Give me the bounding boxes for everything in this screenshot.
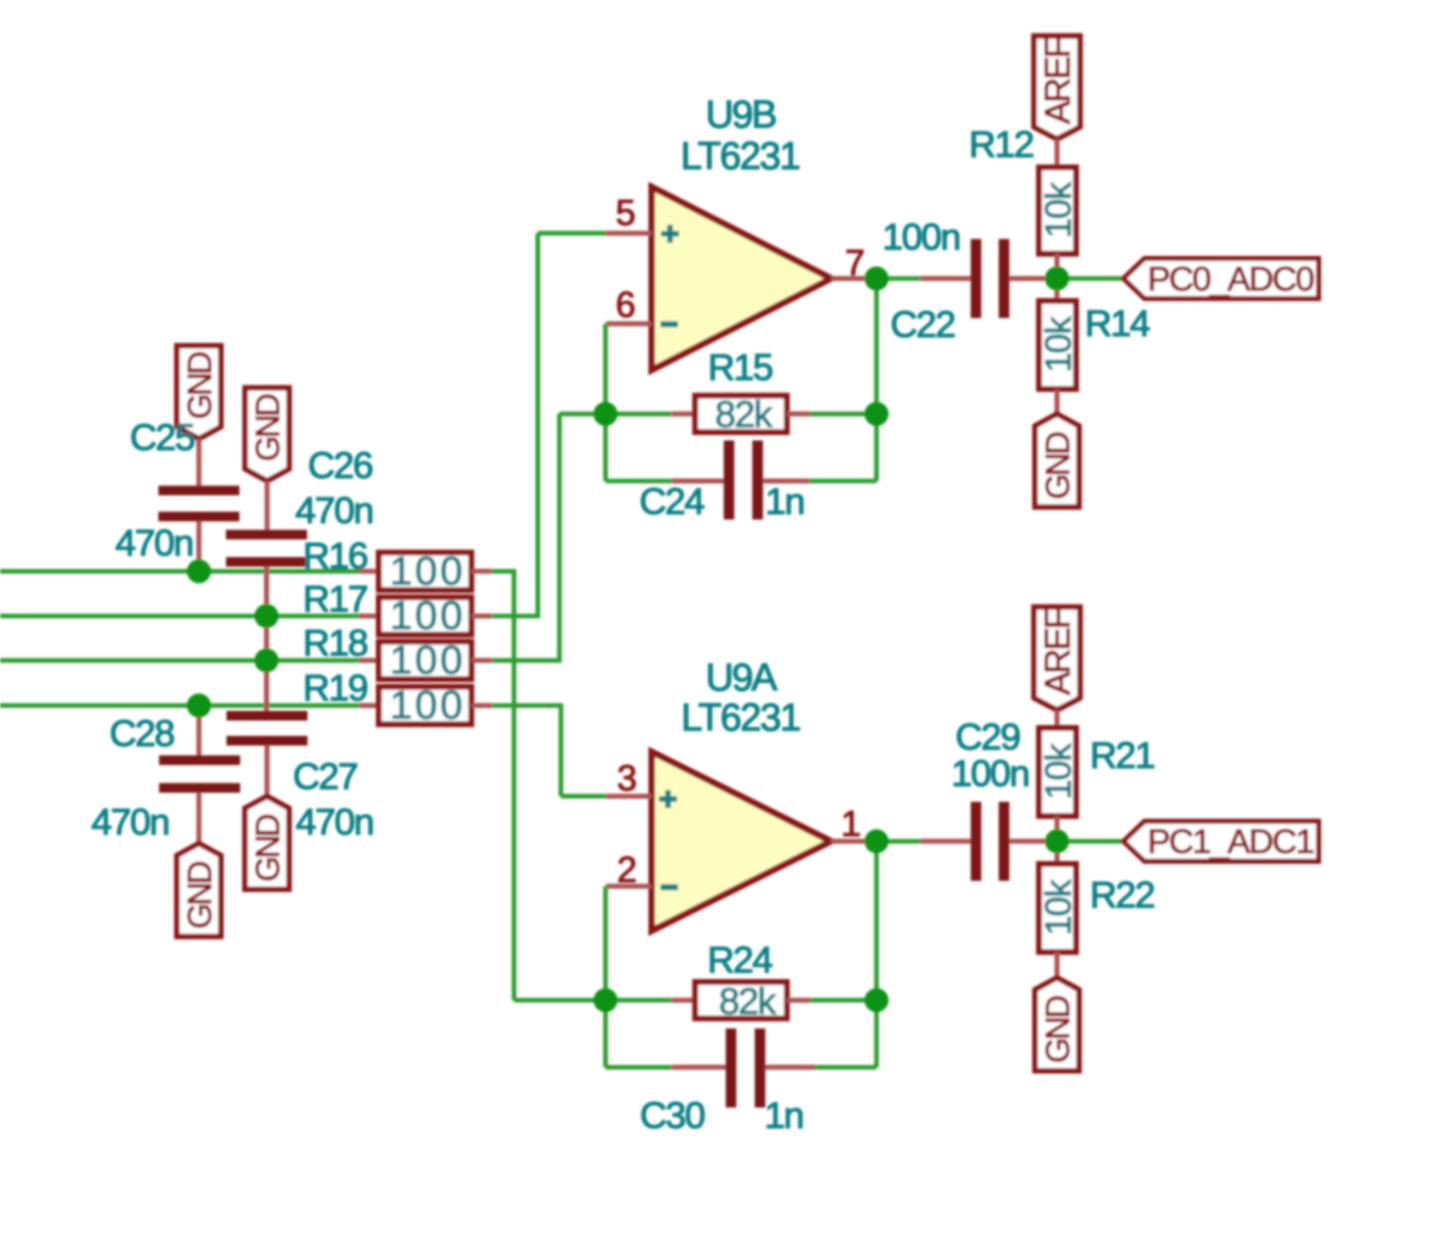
svg-text:100: 100 <box>390 638 466 682</box>
ground flag GND below C27 <box>245 796 289 889</box>
svg-text:LT6231: LT6231 <box>681 135 800 178</box>
capacitor C28 470n <box>159 706 240 844</box>
wire net IN1 horizontal <box>0 569 359 574</box>
svg-text:3: 3 <box>617 758 637 799</box>
resistor R18 100 <box>359 642 492 679</box>
wire to PC1_ADC1 <box>1057 839 1124 844</box>
svg-text:1: 1 <box>841 803 861 844</box>
svg-text:R21: R21 <box>1090 734 1155 776</box>
svg-text:R24: R24 <box>707 939 772 981</box>
svg-text:R18: R18 <box>303 622 368 664</box>
svg-text:R15: R15 <box>708 346 773 388</box>
resistor R12 10k <box>1039 139 1076 279</box>
capacitor C29 100n <box>921 802 1058 881</box>
resistor R17 100 <box>359 597 492 634</box>
wire to PC0_ADC0 <box>1057 276 1124 281</box>
resistor R16 100 <box>359 553 492 590</box>
wire net IN3 horizontal <box>0 658 359 663</box>
svg-text:GND: GND <box>249 394 286 462</box>
capacitor C27 470n <box>227 711 308 796</box>
svg-text:GND: GND <box>1039 996 1076 1064</box>
net label PC1_ADC1 <box>1124 821 1319 861</box>
ground flag GND below C28 <box>177 844 221 937</box>
junction U9B output <box>865 267 889 291</box>
svg-text:470n: 470n <box>295 489 372 531</box>
junction U9A feedback right <box>865 988 889 1012</box>
svg-text:82k: 82k <box>719 980 777 1022</box>
capacitor C24 1n <box>606 412 877 520</box>
svg-text:100: 100 <box>390 549 466 593</box>
resistor R19 100 <box>359 687 492 724</box>
svg-text:10k: 10k <box>1037 878 1078 935</box>
flag AREF top <box>1034 36 1080 139</box>
svg-text:7: 7 <box>845 242 865 283</box>
resistor R22 10k <box>1039 841 1076 977</box>
svg-text:LT6231: LT6231 <box>681 697 800 740</box>
svg-text:100: 100 <box>390 684 466 728</box>
junction PC0 node <box>1045 267 1069 291</box>
ground flag GND below R22 <box>1035 978 1079 1071</box>
svg-text:AREF: AREF <box>1039 38 1078 124</box>
flag AREF bottom <box>1034 607 1080 710</box>
wire U9A feedback right vertical <box>874 841 879 1067</box>
resistor R21 10k <box>1039 710 1076 841</box>
resistor R24 82k <box>606 982 877 1018</box>
svg-text:R16: R16 <box>303 534 368 576</box>
resistor R15 82k <box>606 396 877 432</box>
svg-text:100n: 100n <box>882 216 959 258</box>
svg-text:GND: GND <box>181 861 218 929</box>
resistor R14 10k <box>1039 279 1076 415</box>
capacitor C26 470n <box>226 481 307 711</box>
wire R19 to U9A pin3 <box>492 703 606 796</box>
junction U9B feedback left <box>594 402 618 426</box>
junction U9A output <box>865 829 889 853</box>
op-amp U9B LT6231 <box>606 187 877 370</box>
svg-text:C26: C26 <box>308 444 373 486</box>
svg-text:10k: 10k <box>1037 742 1078 799</box>
svg-text:10k: 10k <box>1037 181 1078 238</box>
svg-text:PC1_ADC1: PC1_ADC1 <box>1148 823 1314 861</box>
wire net IN4 horizontal <box>0 703 359 708</box>
svg-text:R22: R22 <box>1090 873 1154 915</box>
svg-text:5: 5 <box>616 192 636 233</box>
svg-text:C22: C22 <box>890 303 954 345</box>
junction IN4/C28 <box>187 694 211 718</box>
net label PC0_ADC0 <box>1124 259 1319 299</box>
junction PC1 node <box>1045 829 1069 853</box>
svg-text:470n: 470n <box>115 522 192 564</box>
svg-text:82k: 82k <box>715 393 773 435</box>
junction IN3 stem <box>255 648 279 672</box>
wire R16 to U9A inverting node <box>492 569 606 1000</box>
ground flag GND below R14 <box>1035 414 1079 507</box>
svg-text:C28: C28 <box>109 712 174 754</box>
svg-text:10k: 10k <box>1037 315 1078 372</box>
svg-text:C24: C24 <box>639 480 704 522</box>
capacitor C25 470n <box>158 439 239 572</box>
capacitor C22 100n <box>921 239 1058 318</box>
svg-text:6: 6 <box>616 284 636 325</box>
svg-text:GND: GND <box>249 814 286 882</box>
svg-text:U9B: U9B <box>706 94 776 137</box>
wire net IN2 horizontal <box>0 614 359 619</box>
svg-text:C30: C30 <box>640 1094 705 1136</box>
junction U9B feedback right <box>865 402 889 426</box>
svg-text:1n: 1n <box>764 1094 803 1136</box>
wire U9A pin2 to feedback node <box>603 886 608 1000</box>
svg-text:R19: R19 <box>303 667 368 709</box>
junction U9A feedback left <box>594 988 618 1012</box>
ground flag GND above C26 <box>245 388 289 481</box>
svg-text:2: 2 <box>617 849 637 890</box>
svg-text:AREF: AREF <box>1039 609 1078 695</box>
svg-text:U9A: U9A <box>706 657 778 700</box>
wire U9B output to C22 <box>877 276 923 281</box>
wire R18 to U9B feedback node <box>492 414 606 663</box>
op-amp U9A LT6231 <box>606 752 877 931</box>
svg-text:C25: C25 <box>130 416 195 458</box>
svg-text:C27: C27 <box>293 755 357 797</box>
wire U9B feedback right vertical <box>874 279 879 482</box>
svg-text:GND: GND <box>181 352 218 420</box>
capacitor C30 1n <box>606 998 877 1108</box>
svg-text:470n: 470n <box>91 800 168 842</box>
ground flag GND above C25 <box>177 346 221 439</box>
svg-text:1n: 1n <box>765 480 804 522</box>
svg-text:470n: 470n <box>296 800 373 842</box>
svg-text:100n: 100n <box>951 752 1028 794</box>
svg-text:R14: R14 <box>1085 302 1150 344</box>
svg-text:PC0_ADC0: PC0_ADC0 <box>1148 260 1314 298</box>
wire R17 to U9B pin5 <box>492 233 606 618</box>
junction IN2/C26 <box>255 604 279 628</box>
svg-text:R17: R17 <box>303 578 367 620</box>
svg-text:100: 100 <box>390 594 466 638</box>
svg-text:GND: GND <box>1039 432 1076 500</box>
svg-text:R12: R12 <box>969 123 1033 165</box>
wire U9B pin6 to feedback node <box>603 324 608 414</box>
junction IN1/C25 <box>187 559 211 583</box>
wire U9A output to C29 <box>877 839 923 844</box>
